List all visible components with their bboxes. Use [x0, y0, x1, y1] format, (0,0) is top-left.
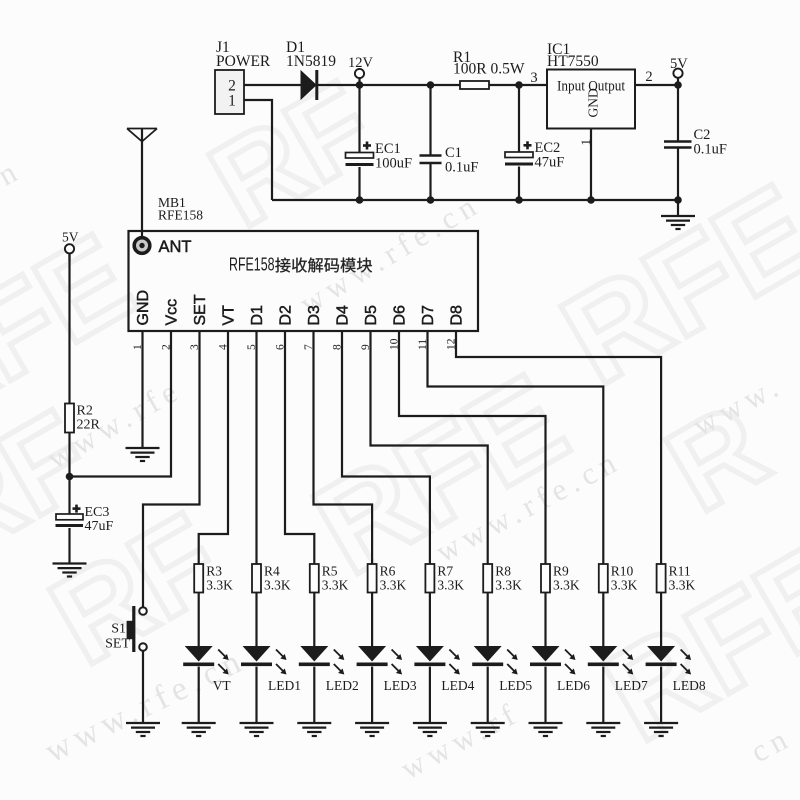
LED LED2 — [300, 646, 328, 662]
svg-text:S1: S1 — [111, 622, 126, 637]
ground LED5 — [471, 723, 505, 736]
resistor R5 3.3K — [310, 564, 319, 593]
wire IC1 pin2 to 5V — [635, 84, 678, 86]
svg-text:3.3K: 3.3K — [322, 578, 349, 593]
svg-text:0.1uF: 0.1uF — [445, 160, 478, 176]
svg-text:R8: R8 — [495, 564, 511, 579]
wire R10 to LED — [602, 593, 604, 647]
svg-text:GND: GND — [135, 290, 152, 326]
IC1 GND pin 1 wire — [590, 129, 592, 201]
ground S1 — [126, 723, 160, 736]
capacitor EC3 47uF — [56, 514, 83, 520]
wire R3 to LED — [198, 593, 200, 647]
svg-text:R7: R7 — [437, 564, 453, 579]
wire pin2 Vcc to left rail — [70, 331, 172, 477]
junction Vcc — [66, 473, 74, 481]
LED LED4 — [416, 646, 444, 662]
IC U2 : module MB1 RFE158 box — [129, 231, 479, 331]
wire LED VT to ground — [198, 667, 200, 723]
wire R4 to LED — [255, 593, 257, 647]
wire LED LED7 to ground — [602, 667, 604, 723]
node 12V — [355, 69, 364, 78]
LED LED1 — [243, 646, 271, 662]
svg-text:3.3K: 3.3K — [380, 578, 407, 593]
wire pin4 VT to R3 — [199, 331, 228, 564]
svg-text:12V: 12V — [348, 55, 374, 71]
svg-text:LED3: LED3 — [384, 678, 417, 693]
LED LED3 — [358, 646, 386, 662]
wire R7 to LED — [429, 593, 431, 647]
wire S1 to ground — [142, 651, 144, 723]
resistor R7 3.3K — [425, 564, 434, 593]
svg-text:D4: D4 — [335, 305, 352, 326]
svg-text:LED1: LED1 — [268, 678, 301, 693]
LED LED8 — [647, 646, 675, 662]
svg-text:3.3K: 3.3K — [264, 578, 291, 593]
resistor R8 3.3K — [483, 564, 492, 593]
wire LED LED3 to ground — [371, 667, 373, 723]
wire LED LED8 to ground — [660, 667, 662, 723]
resistor R4 3.3K — [252, 564, 261, 593]
wire R9 to LED — [544, 593, 546, 647]
wire R8 to LED — [487, 593, 489, 647]
svg-text:R5: R5 — [322, 564, 338, 579]
svg-text:5V: 5V — [670, 56, 688, 72]
svg-text:3.3K: 3.3K — [206, 578, 233, 593]
node 5V — [65, 244, 74, 253]
svg-text:Vcc: Vcc — [164, 299, 181, 326]
wire pin9 D5 to R8 — [371, 331, 488, 564]
svg-text:47uF: 47uF — [535, 155, 565, 171]
ground LED4 — [413, 723, 447, 736]
svg-text:3.3K: 3.3K — [611, 578, 638, 593]
wire pin6 D2 to R5 — [285, 331, 314, 564]
svg-text:R4: R4 — [264, 564, 280, 579]
svg-text:LED5: LED5 — [499, 678, 532, 693]
svg-text:1: 1 — [228, 93, 236, 110]
wire antenna to ANT pin — [141, 129, 143, 239]
capacitor C1 0.1uF — [429, 85, 431, 155]
wire pin12 D8 to R11 — [456, 331, 661, 564]
svg-text:LED2: LED2 — [326, 678, 359, 693]
svg-text:1: 1 — [578, 139, 593, 146]
ground LED1 — [240, 723, 274, 736]
svg-text:SET: SET — [105, 637, 130, 652]
svg-text:100uF: 100uF — [375, 156, 412, 172]
resistor R11 3.3K — [657, 564, 666, 593]
wire pin7 D3 to R6 — [314, 331, 373, 564]
wire pin5 D1 to R4 — [255, 331, 257, 564]
svg-text:3.3K: 3.3K — [553, 578, 580, 593]
LED VT — [185, 646, 213, 662]
node 5V — [673, 69, 682, 78]
wire pin8 D4 to R7 — [342, 331, 430, 564]
junction 5V/C2 — [674, 81, 682, 89]
antenna — [127, 129, 157, 142]
connector J1 POWER — [215, 70, 244, 114]
wire R5 to LED — [313, 593, 315, 647]
ground LED3 — [355, 723, 389, 736]
svg-text:47uF: 47uF — [85, 519, 114, 534]
svg-text:LED8: LED8 — [673, 678, 706, 693]
svg-text:5V: 5V — [62, 230, 79, 245]
svg-text:R11: R11 — [669, 564, 691, 579]
svg-text:D1: D1 — [249, 305, 266, 326]
wire R11 to LED — [660, 593, 662, 647]
svg-text:3.3K: 3.3K — [495, 578, 522, 593]
wire 5V to R2 — [68, 253, 70, 403]
ground LED7 — [586, 723, 620, 736]
resistor R9 3.3K — [541, 564, 550, 593]
wire pin3 SET to switch — [143, 331, 200, 607]
wire LED LED2 to ground — [313, 667, 315, 723]
svg-text:R3: R3 — [206, 564, 222, 579]
junction EC2 top — [515, 81, 523, 89]
svg-text:R2: R2 — [77, 404, 93, 419]
ground EC3 — [53, 564, 87, 577]
LED LED7 — [589, 646, 617, 662]
wire LED LED5 to ground — [487, 667, 489, 723]
svg-text:GND: GND — [586, 88, 601, 117]
ANT terminal — [134, 238, 150, 254]
svg-text:SET: SET — [192, 294, 209, 325]
svg-text:LED6: LED6 — [557, 678, 590, 693]
wire LED LED4 to ground — [429, 667, 431, 723]
svg-text:R9: R9 — [553, 564, 569, 579]
svg-text:LED7: LED7 — [615, 678, 648, 693]
capacitor EC1 100uF — [358, 85, 360, 153]
wire J1 pin1 down to ground rail — [244, 100, 272, 200]
svg-text:D8: D8 — [449, 305, 466, 326]
svg-text:2: 2 — [645, 69, 652, 85]
svg-text:R6: R6 — [380, 564, 396, 579]
LED LED6 — [532, 646, 560, 662]
svg-text:22R: 22R — [77, 418, 101, 433]
LED LED5 — [474, 646, 502, 662]
svg-text:D3: D3 — [306, 305, 323, 326]
switch S1 SET — [139, 607, 147, 615]
svg-text:R10: R10 — [611, 564, 634, 579]
ground LED8 — [644, 723, 678, 736]
svg-text:RFE158: RFE158 — [158, 208, 203, 223]
wire pin10 D6 to R9 — [399, 331, 546, 564]
svg-text:ANT: ANT — [159, 238, 192, 256]
svg-text:D2: D2 — [278, 305, 295, 326]
svg-text:3.3K: 3.3K — [437, 578, 464, 593]
wire LED LED1 to ground — [255, 667, 257, 723]
wire R1 to IC1 pin3 — [489, 84, 547, 86]
svg-text:EC3: EC3 — [85, 505, 110, 520]
diode D1 1N5819 — [301, 71, 316, 99]
junction 12V — [356, 81, 364, 89]
svg-text:0.1uF: 0.1uF — [694, 142, 727, 158]
capacitor C2 0.1uF — [677, 85, 679, 141]
svg-text:POWER: POWER — [216, 53, 271, 70]
svg-text:100R 0.5W: 100R 0.5W — [453, 61, 525, 78]
svg-text:VT: VT — [213, 678, 232, 693]
svg-text:1N5819: 1N5819 — [286, 53, 336, 70]
resistor R6 3.3K — [368, 564, 377, 593]
svg-text:HT7550: HT7550 — [547, 53, 599, 70]
ground LED2 — [297, 723, 331, 736]
wire D1 cathode to R1 — [318, 84, 460, 86]
wire R6 to LED — [371, 593, 373, 647]
svg-text:LED4: LED4 — [441, 678, 474, 693]
ground module pin1 — [126, 448, 160, 461]
resistor R1 100R 0.5W — [460, 81, 489, 89]
capacitor EC2 47uF — [518, 85, 520, 152]
resistor R2 22R — [65, 404, 74, 433]
resistor R10 3.3K — [599, 564, 608, 593]
ground VT — [182, 723, 216, 736]
resistor R3 3.3K — [194, 564, 203, 593]
svg-text:D5: D5 — [363, 305, 380, 326]
ground C2 — [661, 216, 695, 229]
wire ground rail top section — [272, 199, 678, 201]
ground LED6 — [529, 723, 563, 736]
svg-text:D6: D6 — [392, 305, 409, 326]
svg-text:RFE158: RFE158 — [229, 254, 275, 274]
IC U1 : IC1 HT7550 regulator box — [547, 70, 635, 129]
wire LED LED6 to ground — [544, 667, 546, 723]
wire J1 pin2 to D1 anode — [244, 84, 301, 86]
wire R2 to EC3 — [68, 433, 70, 515]
svg-text:D7: D7 — [420, 305, 437, 326]
wire pin11 D7 to R10 — [428, 331, 604, 564]
svg-text:VT: VT — [221, 305, 238, 326]
svg-text:3: 3 — [530, 70, 537, 86]
wire pin1 GND — [141, 331, 143, 448]
svg-text:3.3K: 3.3K — [669, 578, 696, 593]
